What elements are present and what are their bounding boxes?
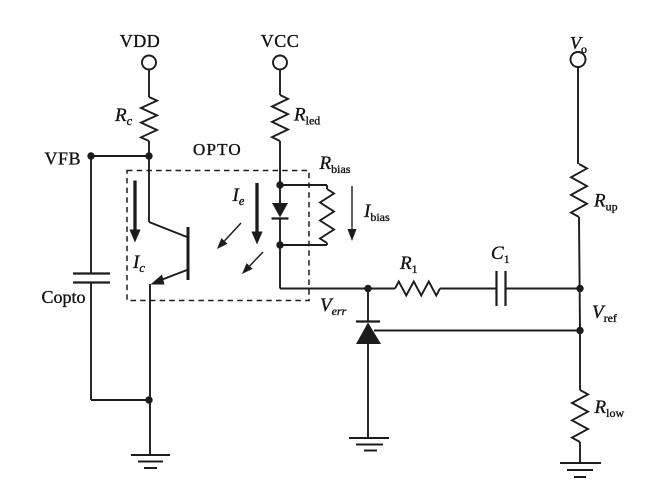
svg-text:Ie: Ie: [232, 185, 245, 208]
svg-text:OPTO: OPTO: [193, 140, 242, 159]
node VFB dot: [87, 152, 94, 159]
node Vref dot: [576, 327, 583, 334]
LED diode D1: [272, 203, 288, 218]
photon arrow 1: [225, 223, 242, 241]
VCC terminal circle: [273, 56, 287, 70]
node LED top dot: [276, 181, 283, 188]
wire bottom horizontal to emitter: [91, 399, 149, 401]
wire Vref to Rlow: [579, 331, 581, 391]
transistor Q1 base bar: [187, 227, 190, 280]
svg-text:Rc: Rc: [114, 105, 133, 128]
svg-text:Verr: Verr: [320, 295, 347, 318]
wire Vref horizontal: [374, 330, 580, 332]
svg-text:Rlow: Rlow: [594, 397, 625, 420]
transistor Q1 collector wire: [148, 156, 150, 222]
resistor R1: [395, 282, 440, 296]
shunt regulator U1 (TL431): [367, 289, 369, 323]
wire C1 to Vo rail: [506, 288, 580, 290]
node Verr dot: [364, 285, 371, 292]
wire LED to bottom node: [279, 219, 281, 289]
wire VFB down to Copto: [90, 156, 92, 273]
resistor Rlow: [572, 390, 588, 442]
Ibias arrow: [351, 186, 353, 229]
node LED bottom dot: [276, 241, 283, 248]
resistor Rc: [141, 97, 157, 141]
node C1 right dot: [576, 285, 583, 292]
resistor Rup: [571, 164, 587, 217]
ground right: [560, 462, 601, 464]
wire Rc bottom to VFB node: [148, 141, 150, 156]
capacitor Copto: [73, 272, 110, 274]
svg-text:VCC: VCC: [261, 31, 300, 51]
wire U1 to ground: [367, 344, 369, 438]
capacitor C1: [495, 271, 497, 306]
wire Rled to LED: [279, 141, 281, 203]
svg-text:Ibias: Ibias: [363, 201, 390, 224]
opto dashed box: [127, 171, 309, 301]
Vo terminal circle: [571, 52, 586, 67]
wire Copto to bottom: [90, 283, 92, 401]
wire Rlow to ground: [579, 442, 581, 463]
resistor Rbias: [280, 184, 327, 186]
svg-text:Vo: Vo: [570, 33, 587, 56]
wire Verr horizontal: [280, 288, 395, 290]
wire VDD terminal to Rc: [148, 70, 150, 98]
wire Vo to Rup: [577, 67, 579, 164]
resistor Rled: [272, 95, 288, 141]
svg-text:Ic: Ic: [132, 252, 145, 275]
transistor Q1 emitter with arrow: [157, 270, 187, 282]
wire emitter down to ground: [149, 284, 151, 455]
svg-text:Vref: Vref: [592, 302, 617, 325]
wire Rup to Vref: [579, 217, 580, 331]
photon arrow 2: [250, 252, 263, 266]
svg-text:VFB: VFB: [45, 149, 82, 169]
ground middle: [349, 437, 389, 439]
svg-text:Rbias: Rbias: [319, 153, 351, 176]
node emitter-bottom dot: [145, 396, 152, 403]
svg-text:C1: C1: [491, 243, 510, 266]
svg-text:Copto: Copto: [42, 287, 86, 307]
wire VFB horizontal: [91, 155, 149, 157]
svg-text:Rup: Rup: [593, 191, 618, 214]
svg-text:VDD: VDD: [120, 31, 161, 51]
ground left: [131, 454, 170, 456]
svg-text:R1: R1: [399, 253, 418, 276]
VDD terminal circle: [142, 56, 156, 70]
node Rc bottom dot: [145, 152, 152, 159]
Ie thick arrow: [255, 183, 258, 234]
wire VCC terminal to Rled: [279, 70, 281, 96]
Ic thick arrow: [133, 181, 136, 232]
wire R1 to C1: [440, 288, 496, 290]
svg-text:Rled: Rled: [293, 105, 320, 128]
